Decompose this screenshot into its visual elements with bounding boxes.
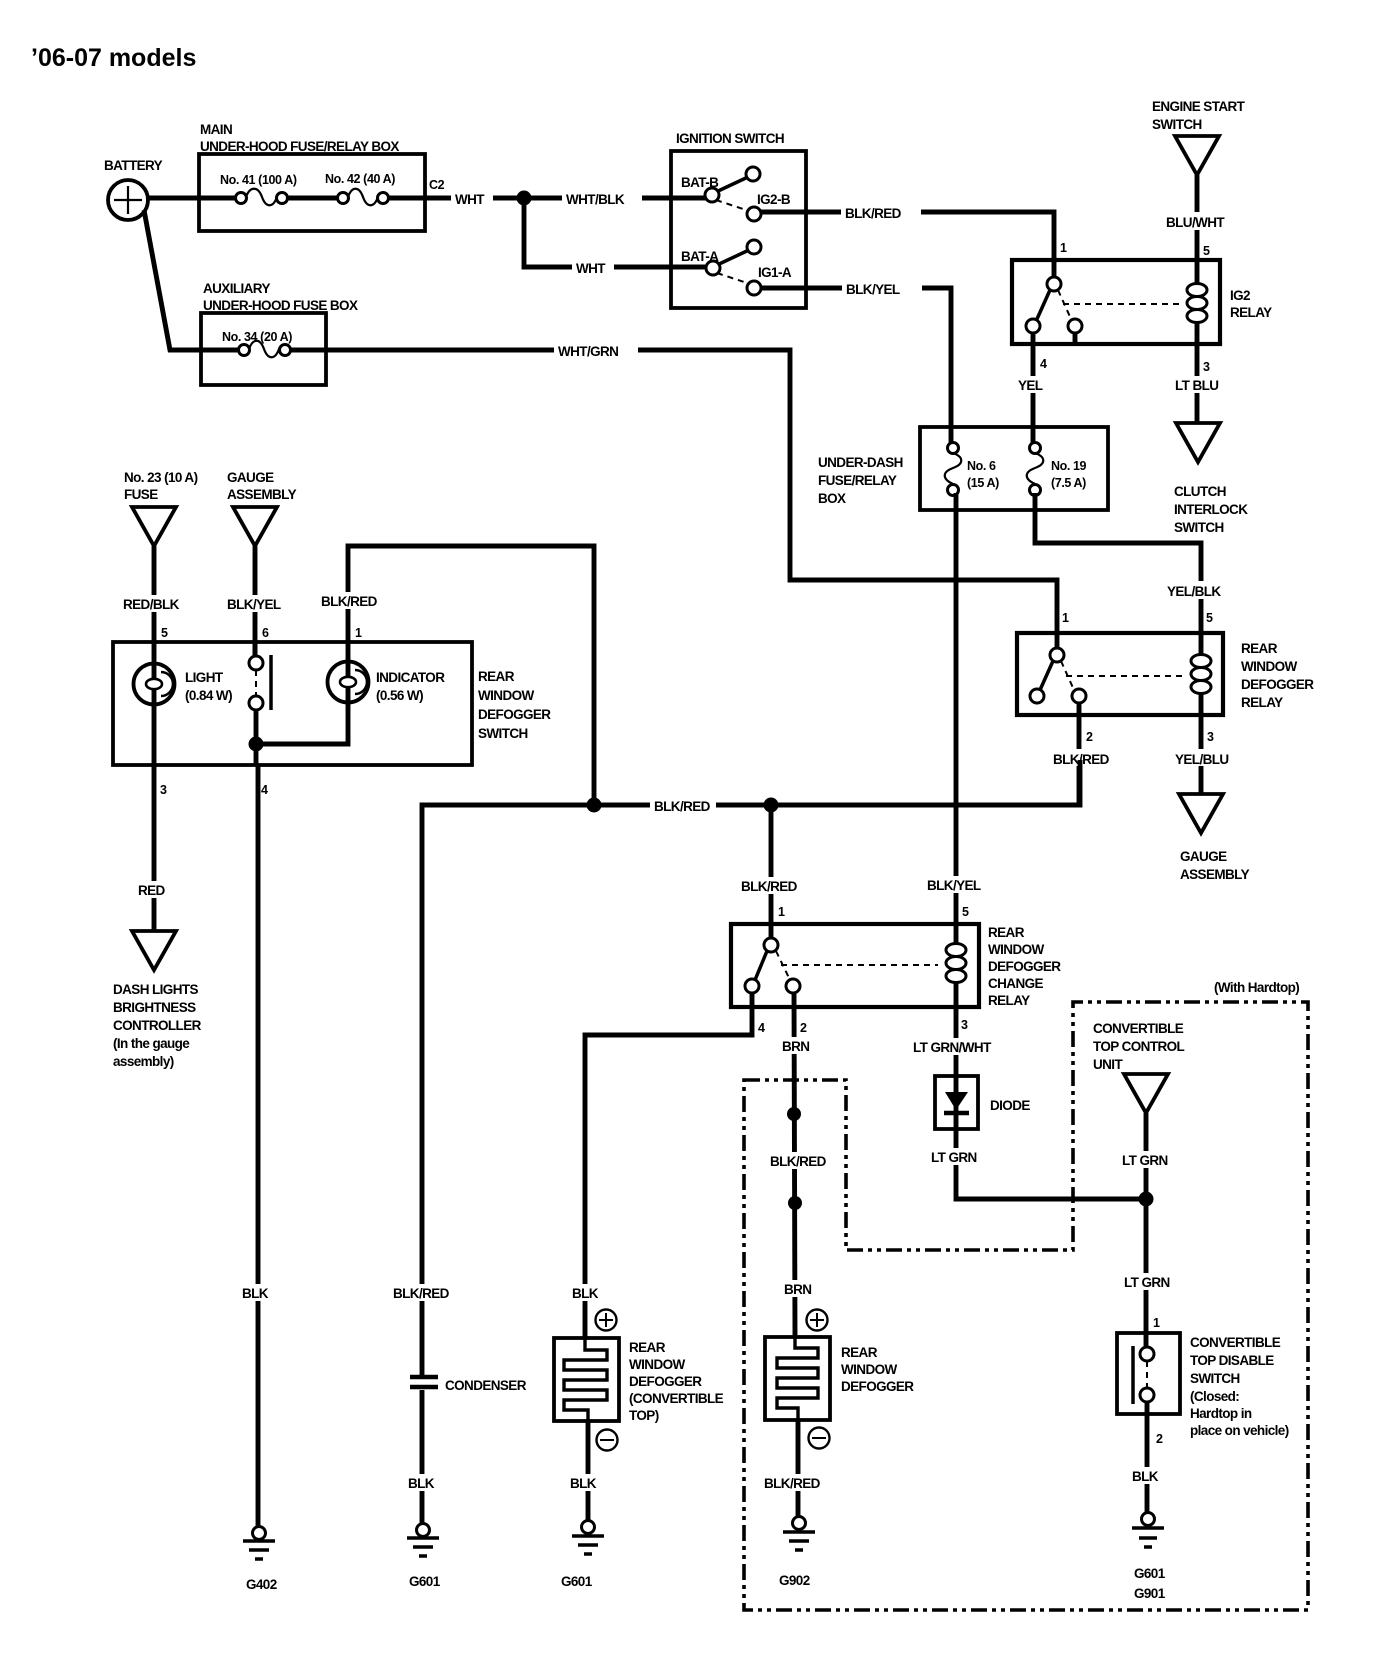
rear window defogger element R2 xyxy=(765,1337,830,1420)
svg-text:ASSEMBLY: ASSEMBLY xyxy=(227,487,297,502)
label BLK/YEL xyxy=(224,595,286,612)
svg-text:IG1-A: IG1-A xyxy=(758,265,792,280)
contact IG1-A xyxy=(747,265,792,295)
svg-text:BRN: BRN xyxy=(782,1039,809,1054)
svg-text:SWITCH: SWITCH xyxy=(1152,117,1202,132)
svg-text:assembly): assembly) xyxy=(113,1054,174,1069)
label LT GRN lower xyxy=(1120,1273,1176,1290)
label YEL/BLK xyxy=(1164,581,1224,599)
svg-text:BLK/YEL: BLK/YEL xyxy=(846,282,900,297)
dash lights brightness controller connector triangle xyxy=(132,931,176,970)
label LT GRN below diode xyxy=(927,1148,983,1165)
svg-text:RELAY: RELAY xyxy=(1241,695,1283,710)
rear window defogger change relay K3 xyxy=(731,924,979,1007)
svg-text:CONDENSER: CONDENSER xyxy=(445,1378,527,1393)
label LT BLU xyxy=(1172,376,1224,393)
wire WHT/GRN aux fuse box to defogger relay pin 1 xyxy=(291,350,1057,650)
wire BLK/RED IG2-B to IG2 relay pin 1 xyxy=(761,212,1054,278)
change relay label xyxy=(988,925,1061,1008)
svg-text:BLU/WHT: BLU/WHT xyxy=(1166,215,1225,230)
IG2 relay coil xyxy=(1187,284,1207,323)
wire BLK change relay pin 4 to convertible top defogger xyxy=(585,993,752,1340)
svg-text:TOP CONTROL: TOP CONTROL xyxy=(1093,1039,1185,1054)
wire YEL IG2 relay pin 4 to fuse No. 19 xyxy=(1031,333,1036,444)
plus terminal rear window defogger xyxy=(807,1310,828,1331)
svg-text:’06-07 models: ’06-07 models xyxy=(31,44,196,72)
label YEL/BLU xyxy=(1172,749,1234,767)
svg-text:1: 1 xyxy=(1153,1316,1160,1330)
svg-text:DEFOGGER: DEFOGGER xyxy=(478,707,551,722)
svg-text:BLK/YEL: BLK/YEL xyxy=(227,597,281,612)
wire battery to auxiliary fuse box xyxy=(144,210,240,350)
label YEL xyxy=(1014,376,1052,393)
rear window defogger label xyxy=(841,1345,914,1394)
svg-text:4: 4 xyxy=(758,1021,765,1035)
fuse No. 23 connector triangle xyxy=(132,507,176,546)
rear window defogger (convertible top) label xyxy=(629,1340,724,1423)
wire BLK/RED defogger relay pin 2 to bus xyxy=(1077,703,1082,805)
svg-text:LT GRN: LT GRN xyxy=(931,1150,977,1165)
junction node bus left xyxy=(587,798,602,813)
defogger switch contact xyxy=(249,642,271,765)
svg-text:(With Hardtop): (With Hardtop) xyxy=(1214,980,1299,995)
svg-text:2: 2 xyxy=(1156,1432,1163,1446)
ground G402 xyxy=(243,1527,277,1593)
gauge assembly connector triangle left xyxy=(233,507,277,546)
rear window defogger switch SW2 xyxy=(113,642,551,765)
svg-text:ENGINE START: ENGINE START xyxy=(1152,99,1246,114)
label LT GRN/WHT xyxy=(909,1038,1001,1055)
svg-text:LT GRN: LT GRN xyxy=(1122,1153,1168,1168)
wire BLU/WHT to IG2 relay coil pin 5 xyxy=(1195,175,1200,344)
wire BLK/RED rear window defogger to ground G902 xyxy=(796,1420,801,1517)
svg-text:(15 A): (15 A) xyxy=(967,476,999,490)
svg-text:WINDOW: WINDOW xyxy=(988,942,1044,957)
wire YEL/BLK fuse No. 19 to defogger relay coil pin 5 and pin 3 xyxy=(1035,493,1201,793)
label BLK disable switch xyxy=(1128,1467,1166,1484)
svg-text:UNDER-DASH: UNDER-DASH xyxy=(818,455,903,470)
svg-text:5: 5 xyxy=(161,626,168,640)
label BRN lower xyxy=(780,1280,820,1297)
svg-text:IG2: IG2 xyxy=(1230,288,1250,303)
svg-text:BLK: BLK xyxy=(572,1286,599,1301)
svg-text:UNIT: UNIT xyxy=(1093,1057,1123,1072)
contact BAT-A xyxy=(681,240,761,284)
svg-text:3: 3 xyxy=(961,1018,968,1032)
svg-text:SWITCH: SWITCH xyxy=(1174,520,1224,535)
svg-text:RELAY: RELAY xyxy=(988,993,1030,1008)
svg-text:DASH LIGHTS: DASH LIGHTS xyxy=(113,982,198,997)
svg-text:No. 23 (10 A): No. 23 (10 A) xyxy=(124,470,198,485)
wire BLK/YEL fuse No. 6 down to change relay coil pin 5 xyxy=(954,493,959,1007)
wire RED/BLK fuse 23 to defogger switch pin 5 xyxy=(152,546,157,642)
svg-text:4: 4 xyxy=(261,783,268,797)
svg-text:BRIGHTNESS: BRIGHTNESS xyxy=(113,1000,196,1015)
label WHT/BLK xyxy=(562,189,642,207)
wire BLK disable switch to ground xyxy=(1145,1402,1150,1513)
label RED xyxy=(134,881,172,898)
svg-text:BATTERY: BATTERY xyxy=(104,158,163,173)
gauge assembly connector triangle right xyxy=(1179,794,1223,833)
gauge assembly label right xyxy=(1180,849,1250,882)
svg-text:BLK/RED: BLK/RED xyxy=(321,594,378,609)
svg-text:WHT/BLK: WHT/BLK xyxy=(566,192,625,207)
label RED/BLK xyxy=(120,595,186,612)
minus terminal rear window defogger xyxy=(809,1428,830,1449)
svg-text:GAUGE: GAUGE xyxy=(1180,849,1227,864)
svg-text:4: 4 xyxy=(1040,357,1047,371)
rear window defogger (convertible top) element R1 xyxy=(554,1338,619,1421)
svg-text:BLK: BLK xyxy=(570,1476,597,1491)
svg-text:UNDER-HOOD FUSE/RELAY BOX: UNDER-HOOD FUSE/RELAY BOX xyxy=(200,139,399,154)
label BLK/RED xyxy=(318,592,380,609)
wire BLK/RED bus with condenser drop and relay pin2 riser xyxy=(422,760,1080,1375)
svg-text:Hardtop in: Hardtop in xyxy=(1190,1406,1252,1421)
svg-text:G601: G601 xyxy=(1134,1566,1166,1581)
fuse No. 41 (100 A) xyxy=(220,173,297,205)
label BLK/RED condenser column xyxy=(390,1284,454,1301)
label BLK conv top defogger xyxy=(566,1474,604,1491)
change relay coil xyxy=(946,944,966,983)
svg-text:INDICATOR: INDICATOR xyxy=(376,670,445,685)
svg-text:C2: C2 xyxy=(429,178,445,192)
svg-text:G402: G402 xyxy=(246,1577,277,1592)
clutch interlock switch connector triangle xyxy=(1176,423,1220,462)
svg-text:REAR: REAR xyxy=(1241,641,1278,656)
label BLK/YEL xyxy=(842,279,922,297)
IG2 relay label xyxy=(1230,288,1272,320)
svg-text:DEFOGGER: DEFOGGER xyxy=(988,959,1061,974)
svg-text:DEFOGGER: DEFOGGER xyxy=(841,1379,914,1394)
wire LT GRN control unit to junction xyxy=(1144,1113,1149,1199)
convertible top control unit connector triangle xyxy=(1124,1074,1168,1113)
wire BLK/YEL IG1-A to under-dash fuse No. 6 xyxy=(761,288,951,444)
light bulb L1 xyxy=(134,664,233,705)
wire BLK defogger switch pin 4 to ground G402 xyxy=(256,765,261,1527)
svg-text:3: 3 xyxy=(160,783,167,797)
label LT GRN control unit xyxy=(1118,1151,1172,1168)
fuse No. 6 (15 A) xyxy=(945,443,999,496)
svg-text:6: 6 xyxy=(262,626,269,640)
fuse No. 19 (7.5 A) xyxy=(1027,443,1087,496)
svg-text:BLK/RED: BLK/RED xyxy=(654,799,711,814)
label BLK/RED BRN column xyxy=(767,1152,831,1169)
svg-text:BLK: BLK xyxy=(408,1476,435,1491)
ground G601 conv top xyxy=(561,1521,604,1590)
svg-text:UNDER-HOOD FUSE BOX: UNDER-HOOD FUSE BOX xyxy=(203,298,358,313)
wire battery to main fuse box xyxy=(146,196,238,201)
svg-text:ASSEMBLY: ASSEMBLY xyxy=(1180,867,1250,882)
svg-text:(In the gauge: (In the gauge xyxy=(113,1036,190,1051)
svg-text:BOX: BOX xyxy=(818,491,846,506)
svg-text:5: 5 xyxy=(962,905,969,919)
svg-text:CONVERTIBLE: CONVERTIBLE xyxy=(1093,1021,1184,1036)
svg-text:BLK: BLK xyxy=(242,1286,269,1301)
dash lights brightness controller label xyxy=(113,982,202,1069)
svg-text:INTERLOCK: INTERLOCK xyxy=(1174,502,1248,517)
fuse No. 23 (10 A) connector label xyxy=(124,470,198,502)
svg-text:RED: RED xyxy=(138,883,166,898)
svg-text:REAR: REAR xyxy=(841,1345,878,1360)
engine start switch connector triangle xyxy=(1175,136,1219,175)
wire LT GRN/WHT change relay pin 3 through diode to LT GRN node xyxy=(956,1007,1146,1199)
condenser C1 xyxy=(410,1377,527,1393)
svg-text:WINDOW: WINDOW xyxy=(629,1357,685,1372)
label BLK/RED pin2 xyxy=(1050,749,1112,767)
under-dash fuse/relay box xyxy=(818,427,1108,510)
svg-text:BLK/RED: BLK/RED xyxy=(393,1286,450,1301)
engine start switch connector label xyxy=(1152,99,1246,132)
svg-text:YEL/BLK: YEL/BLK xyxy=(1167,584,1221,599)
ground G601 condenser xyxy=(407,1524,441,1590)
svg-text:TOP DISABLE: TOP DISABLE xyxy=(1190,1353,1274,1368)
svg-text:AUXILIARY: AUXILIARY xyxy=(203,281,270,296)
svg-text:LT BLU: LT BLU xyxy=(1175,378,1218,393)
svg-text:(0.84 W): (0.84 W) xyxy=(185,688,232,703)
label BLK/RED change relay pin 1 xyxy=(737,877,799,894)
svg-text:WHT: WHT xyxy=(455,192,485,207)
svg-text:CLUTCH: CLUTCH xyxy=(1174,484,1226,499)
ground G601 G901 xyxy=(1132,1513,1166,1602)
defogger relay coil xyxy=(1191,655,1211,694)
svg-text:YEL/BLU: YEL/BLU xyxy=(1175,752,1229,767)
ignition switch SW1 xyxy=(671,131,806,308)
wire junction down to BAT-A feed xyxy=(524,198,708,267)
svg-text:(Closed:: (Closed: xyxy=(1190,1389,1239,1404)
svg-text:TOP): TOP) xyxy=(629,1408,659,1423)
label BLU/WHT xyxy=(1163,212,1229,230)
svg-text:G902: G902 xyxy=(779,1573,810,1588)
svg-text:G601: G601 xyxy=(409,1574,441,1589)
fuse No. 42 (40 A) xyxy=(325,172,395,205)
svg-text:GAUGE: GAUGE xyxy=(227,470,274,485)
rear window defogger relay K2 xyxy=(1017,633,1223,715)
svg-text:5: 5 xyxy=(1206,611,1213,625)
svg-text:FUSE/RELAY: FUSE/RELAY xyxy=(818,473,897,488)
connector node BRN lower xyxy=(788,1196,802,1210)
label BLK xyxy=(404,1474,442,1491)
svg-text:WHT: WHT xyxy=(576,261,606,276)
indicator bulb wire and link to junction xyxy=(256,642,348,744)
svg-text:BLK/YEL: BLK/YEL xyxy=(927,878,981,893)
svg-text:BRN: BRN xyxy=(784,1282,811,1297)
svg-text:IGNITION SWITCH: IGNITION SWITCH xyxy=(676,131,784,146)
hardtop dash-dot boundary xyxy=(744,1002,1308,1610)
svg-text:DEFOGGER: DEFOGGER xyxy=(1241,677,1314,692)
svg-text:CONVERTIBLE: CONVERTIBLE xyxy=(1190,1335,1281,1350)
svg-text:(7.5 A): (7.5 A) xyxy=(1051,476,1086,490)
svg-text:BLK/RED: BLK/RED xyxy=(764,1476,821,1491)
svg-text:place on vehicle): place on vehicle) xyxy=(1190,1423,1289,1438)
junction node defogger switch pin 4 xyxy=(249,737,264,752)
svg-text:RELAY: RELAY xyxy=(1230,305,1272,320)
svg-text:LIGHT: LIGHT xyxy=(185,670,224,685)
label BRN xyxy=(778,1037,818,1054)
wire WHT fuse 42 to ignition switch BAT-B xyxy=(389,196,707,201)
svg-text:DIODE: DIODE xyxy=(990,1098,1030,1113)
svg-text:No. 6: No. 6 xyxy=(967,459,996,473)
disable switch label xyxy=(1190,1335,1289,1438)
svg-text:1: 1 xyxy=(1060,241,1067,255)
svg-text:2: 2 xyxy=(800,1021,807,1035)
svg-text:3: 3 xyxy=(1207,730,1214,744)
junction node battery feed xyxy=(517,191,532,206)
junction node LT GRN xyxy=(1139,1192,1154,1207)
IG2 relay K1 xyxy=(1012,260,1220,344)
svg-text:YEL: YEL xyxy=(1018,378,1043,393)
wire BLK conv top defogger to ground xyxy=(586,1421,591,1521)
svg-text:G601: G601 xyxy=(561,1574,593,1589)
indicator bulb L2 xyxy=(328,662,446,704)
wire LT GRN junction to disable switch pin 1 xyxy=(1144,1199,1149,1348)
junction node bus right xyxy=(764,798,779,813)
svg-text:1: 1 xyxy=(778,905,785,919)
svg-text:WHT/GRN: WHT/GRN xyxy=(558,344,618,359)
main under-hood fuse/relay box xyxy=(199,122,425,231)
label BLK/RED bus inline xyxy=(650,796,716,814)
gauge assembly connector label left xyxy=(227,470,297,502)
svg-text:CONTROLLER: CONTROLLER xyxy=(113,1018,202,1033)
svg-text:5: 5 xyxy=(1203,244,1210,258)
contact BAT-B xyxy=(681,167,760,211)
wire BLK condenser to ground G601 xyxy=(420,1390,425,1524)
minus terminal conv top defogger xyxy=(597,1430,618,1451)
svg-text:No. 41 (100 A): No. 41 (100 A) xyxy=(220,173,297,187)
svg-text:IG2-B: IG2-B xyxy=(757,192,791,207)
wire BLK/RED defogger switch pin 1 riser to bus junction xyxy=(348,546,594,805)
svg-text:(CONVERTIBLE: (CONVERTIBLE xyxy=(629,1391,724,1406)
svg-text:WINDOW: WINDOW xyxy=(841,1362,897,1377)
svg-text:REAR: REAR xyxy=(629,1340,666,1355)
svg-text:LT GRN: LT GRN xyxy=(1124,1275,1170,1290)
svg-text:REAR: REAR xyxy=(988,925,1025,940)
svg-text:G901: G901 xyxy=(1134,1586,1166,1601)
contact IG2-B xyxy=(747,192,791,221)
svg-text:FUSE: FUSE xyxy=(124,487,158,502)
wire BLK/YEL gauge assembly to defogger switch pin 6 xyxy=(253,546,258,658)
svg-text:BLK: BLK xyxy=(1132,1469,1159,1484)
svg-text:No. 19: No. 19 xyxy=(1051,459,1087,473)
convertible top disable switch SW3 xyxy=(1117,1333,1180,1414)
svg-text:LT GRN/WHT: LT GRN/WHT xyxy=(913,1040,992,1055)
label BLK/YEL change relay pin 5 xyxy=(923,876,985,893)
svg-text:3: 3 xyxy=(1203,360,1210,374)
defogger relay label xyxy=(1241,641,1314,710)
svg-text:1: 1 xyxy=(355,626,362,640)
wire change relay pin 1 from bus xyxy=(769,805,774,938)
battery B1 xyxy=(104,158,163,220)
svg-text:RED/BLK: RED/BLK xyxy=(123,597,180,612)
diode D1 xyxy=(935,1076,1030,1129)
wire LT BLU IG2 relay pin 3 to clutch interlock switch xyxy=(1195,344,1200,423)
label BLK xyxy=(238,1284,276,1301)
label WHT xyxy=(451,189,493,207)
label WHT xyxy=(572,258,614,276)
svg-text:SWITCH: SWITCH xyxy=(1190,1371,1240,1386)
plus terminal conv top defogger xyxy=(596,1310,617,1331)
wire BRN change relay pin 2 to rear window defogger xyxy=(794,993,795,1338)
svg-text:(0.56 W): (0.56 W) xyxy=(376,688,423,703)
light bulb wire through xyxy=(152,642,157,765)
fuse No. 34 (20 A) xyxy=(222,330,292,357)
connector node BRN upper xyxy=(787,1107,801,1121)
svg-text:SWITCH: SWITCH xyxy=(478,726,528,741)
svg-text:WINDOW: WINDOW xyxy=(1241,659,1297,674)
svg-text:REAR: REAR xyxy=(478,669,515,684)
auxiliary under-hood fuse box xyxy=(201,281,358,385)
svg-text:MAIN: MAIN xyxy=(200,122,232,137)
label BLK conv top column xyxy=(568,1284,606,1301)
ground G902 xyxy=(779,1517,815,1589)
wire between fuse 41 and fuse 42 xyxy=(288,196,338,201)
svg-text:No. 42 (40 A): No. 42 (40 A) xyxy=(325,172,395,186)
label BLK/RED xyxy=(841,203,921,221)
svg-text:WINDOW: WINDOW xyxy=(478,688,534,703)
svg-text:BLK/RED: BLK/RED xyxy=(770,1154,827,1169)
label BLK/RED defogger ground xyxy=(761,1474,825,1491)
svg-text:2: 2 xyxy=(1086,730,1093,744)
convertible top control unit label xyxy=(1093,1021,1185,1072)
svg-text:1: 1 xyxy=(1062,611,1069,625)
svg-text:DEFOGGER: DEFOGGER xyxy=(629,1374,702,1389)
svg-text:CHANGE: CHANGE xyxy=(988,976,1043,991)
label WHT/GRN xyxy=(554,341,638,359)
clutch interlock switch label xyxy=(1174,484,1248,535)
wire RED defogger switch pin 3 to dash lights controller xyxy=(152,765,157,931)
svg-text:BLK/RED: BLK/RED xyxy=(845,206,902,221)
svg-text:BLK/RED: BLK/RED xyxy=(741,879,798,894)
